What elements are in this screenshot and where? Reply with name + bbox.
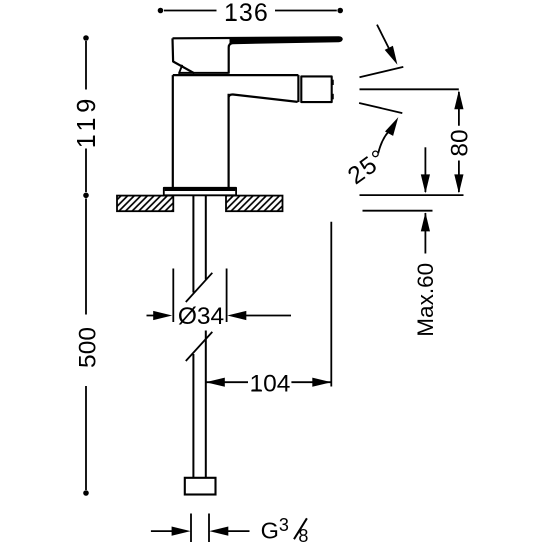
svg-text:136: 136 xyxy=(224,0,269,27)
svg-text:500: 500 xyxy=(74,327,101,368)
svg-text:119: 119 xyxy=(73,94,101,148)
svg-text:Max.60: Max.60 xyxy=(413,263,438,337)
svg-text:G: G xyxy=(261,518,279,544)
svg-text:Ø34: Ø34 xyxy=(178,303,224,330)
svg-text:104: 104 xyxy=(249,370,290,397)
svg-text:80: 80 xyxy=(447,129,474,156)
svg-text:3: 3 xyxy=(279,515,289,535)
